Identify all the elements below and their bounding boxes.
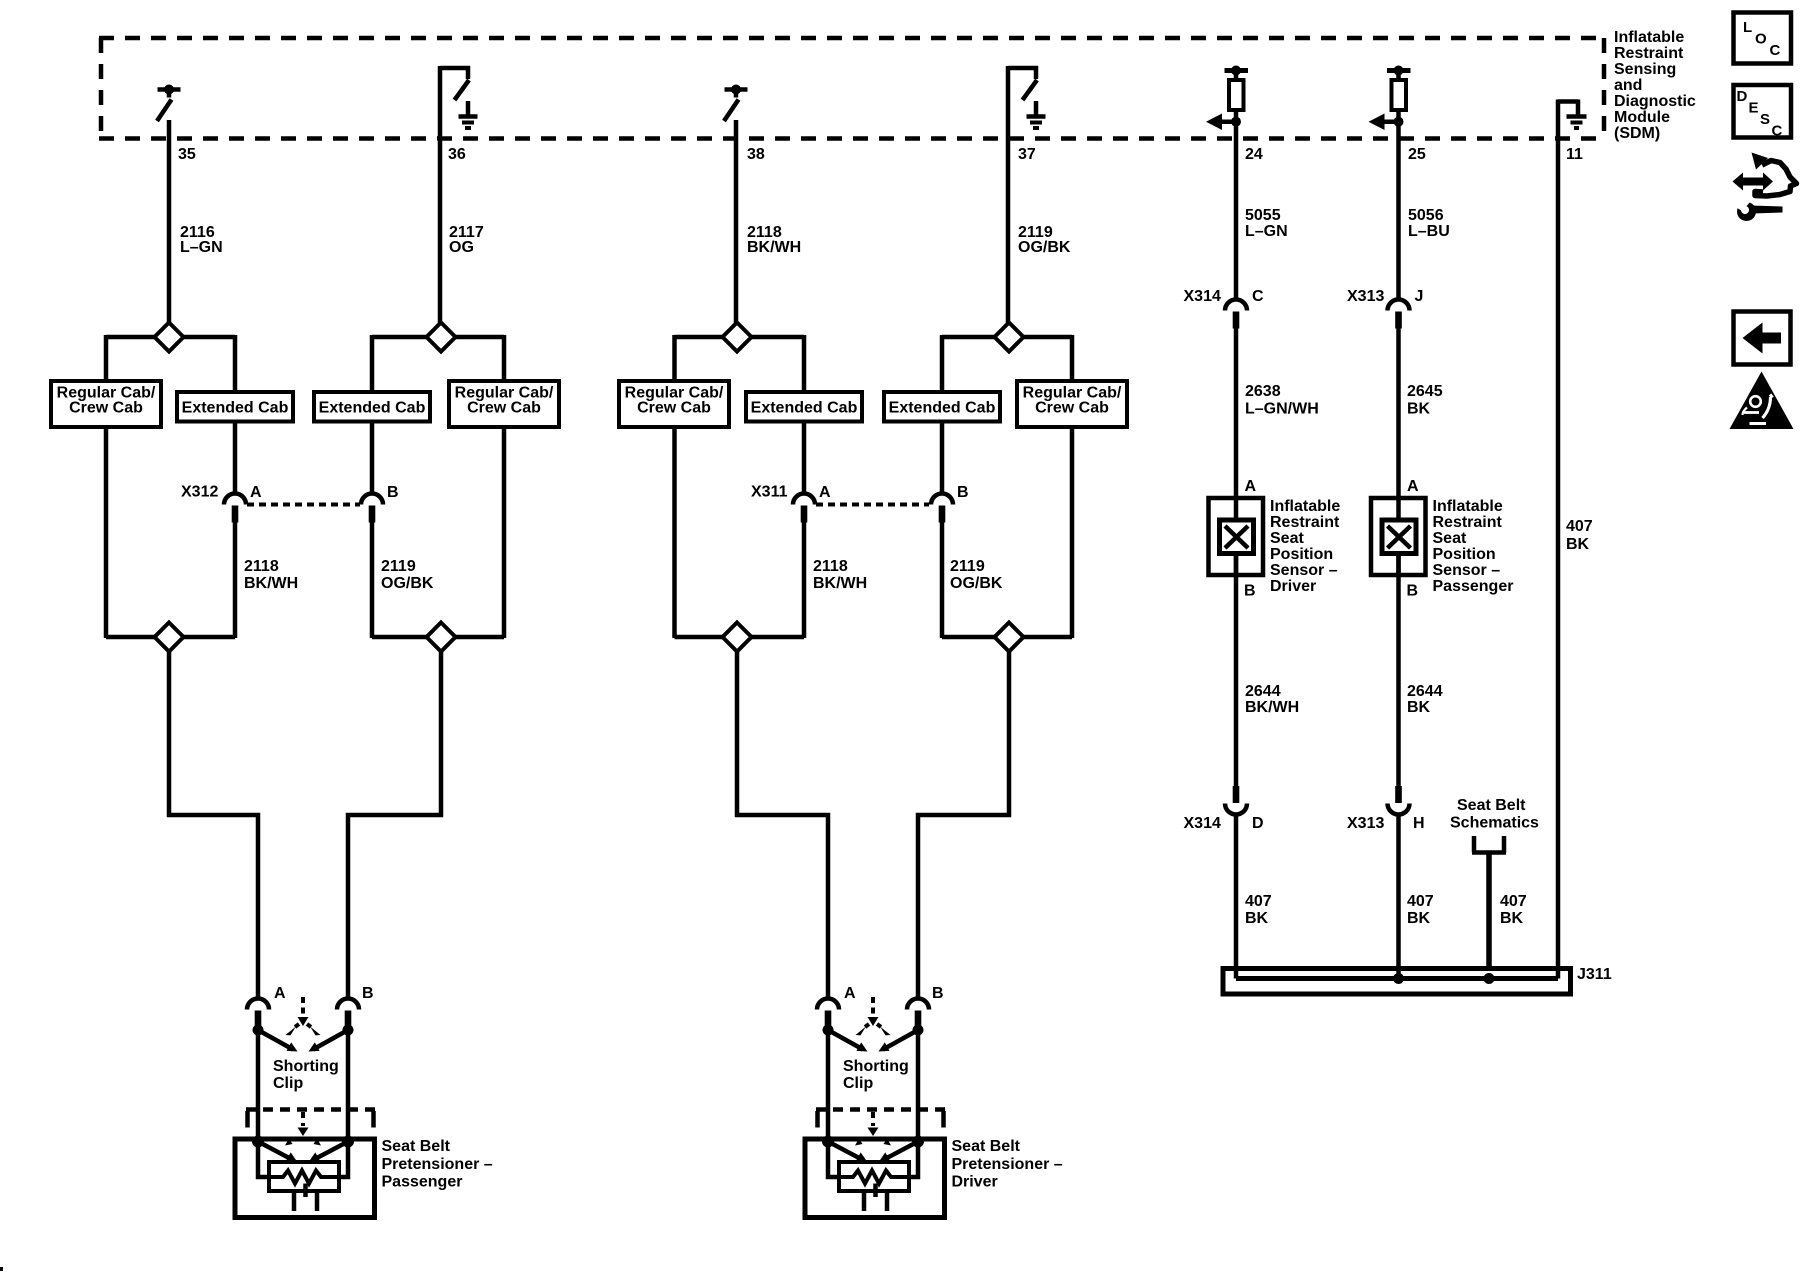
wire circuit2 merge bus — [372, 635, 504, 640]
wire label 5055 L-GN — [1245, 207, 1288, 240]
svg-text:407: 407 — [1245, 893, 1272, 910]
wire label 407 BK middle — [1407, 893, 1434, 927]
icon service double arrow — [1733, 173, 1774, 191]
shorting clip actuation dashed arrow center — [301, 997, 305, 1016]
wire pin 38 to diamond — [734, 120, 739, 324]
svg-text:A: A — [250, 484, 262, 501]
splice diamond circuit4 bottom — [995, 623, 1024, 652]
wire circuit4 right stub to Regular Cab box — [1070, 335, 1075, 382]
label Seat Belt Pretensioner Passenger — [382, 1138, 493, 1191]
svg-text:Seat Belt: Seat Belt — [382, 1138, 451, 1155]
junction dot X313 wire on bus — [1393, 973, 1404, 984]
shorting clip dashed arrow right — [307, 1024, 313, 1029]
connector pin B arc (pretensioner driver) — [907, 999, 929, 1010]
connector X312 pin B terminal — [369, 506, 376, 523]
connector X314 pin D terminal — [1233, 786, 1240, 803]
svg-text:Passenger: Passenger — [382, 1174, 463, 1191]
svg-text:Shorting: Shorting — [273, 1058, 339, 1075]
connector pin A terminal — [255, 1011, 262, 1028]
option box Extended Cab circuit1 — [177, 392, 293, 422]
connector X314 pin C arc — [1225, 300, 1247, 311]
svg-text:Sensor –: Sensor – — [1433, 562, 1501, 579]
wire Regular branch down circuit3 — [672, 427, 677, 638]
wire circuit1 left stub to Regular Cab box — [104, 335, 109, 382]
SDM pin 35 firing-loop driver switch — [157, 90, 181, 122]
splice diamond circuit1 top — [155, 323, 184, 352]
svg-text:Position: Position — [1270, 546, 1333, 563]
wire label 2116 L-GN — [180, 224, 223, 256]
connector X312 pin B arc — [361, 494, 383, 505]
SDM pin 24 sense arrow — [1216, 119, 1236, 124]
svg-text:2118: 2118 — [244, 558, 279, 575]
junction dot A — [253, 1025, 264, 1036]
wire circuit1 right stub to Extended Cab box — [233, 335, 238, 393]
connector pin B arc (pretensioner passenger) — [337, 999, 359, 1010]
wire pin 24 down to X314 C — [1234, 110, 1239, 300]
svg-text:L: L — [1743, 19, 1752, 36]
svg-text:Clip: Clip — [273, 1075, 303, 1092]
wire A to squib — [258, 1142, 271, 1178]
option box Regular Cab/Crew Cab circuit2 — [449, 381, 559, 427]
svg-text:24: 24 — [1245, 146, 1263, 163]
wire label 2119 OG/BK circuit2 — [381, 558, 434, 592]
svg-text:B: B — [932, 985, 944, 1002]
junction dot A inside box — [252, 1136, 264, 1148]
splice diamond circuit4 top — [995, 323, 1024, 352]
connector X311 pin A arc — [793, 494, 815, 505]
splice pack J311 bus bar — [1236, 976, 1558, 981]
svg-text:L–GN/WH: L–GN/WH — [1245, 401, 1319, 418]
component box Seat Belt Pretensioner Driver — [805, 1139, 945, 1218]
dashed connector housing top — [816, 1107, 945, 1112]
svg-text:Extended Cab: Extended Cab — [751, 400, 858, 417]
svg-text:OG/BK: OG/BK — [950, 575, 1003, 592]
wire label 2119 OG/BK — [1018, 224, 1071, 256]
svg-text:Seat: Seat — [1270, 530, 1304, 547]
wire A down to pretensioner — [826, 1030, 831, 1142]
dashed connector housing top — [246, 1107, 375, 1112]
SDM pin 38 firing-loop driver switch — [724, 90, 748, 122]
svg-text:Extended Cab: Extended Cab — [319, 400, 426, 417]
option box Regular Cab/Crew Cab circuit4 — [1017, 381, 1127, 427]
svg-text:2645: 2645 — [1407, 383, 1443, 400]
shorting clip contact blade B — [883, 1030, 918, 1050]
wire A down to pretensioner — [256, 1030, 261, 1142]
shorting clip contact blade A — [258, 1030, 293, 1050]
wire Regular branch down circuit2 — [502, 427, 507, 638]
wire X314 C to seat position sensor driver — [1234, 327, 1239, 522]
svg-text:OG/BK: OG/BK — [1018, 239, 1071, 256]
svg-text:(SDM): (SDM) — [1614, 125, 1660, 142]
svg-text:X314: X314 — [1184, 815, 1221, 832]
svg-text:Driver: Driver — [952, 1174, 998, 1191]
label Seat Belt Pretensioner Driver — [952, 1138, 1063, 1191]
shorting bar blade B inside box — [315, 1142, 348, 1160]
connector X311 pin B arc — [931, 494, 953, 505]
svg-text:Seat: Seat — [1433, 530, 1467, 547]
squib box passenger — [269, 1162, 339, 1191]
svg-text:J311: J311 — [1577, 966, 1612, 983]
SDM pin 25 sense arrow — [1379, 119, 1399, 124]
svg-text:and: and — [1614, 77, 1642, 94]
SDM pin 11 internal ground connection — [1558, 100, 1578, 116]
svg-text:407: 407 — [1407, 893, 1434, 910]
svg-text:Position: Position — [1433, 546, 1496, 563]
svg-text:Inflatable: Inflatable — [1614, 29, 1684, 46]
SDM pin 24 pull-up resistor R1 — [1225, 68, 1249, 73]
wire label 407 BK left — [1245, 893, 1272, 927]
wire X313 J to seat position sensor passenger — [1396, 327, 1401, 522]
wire circuit1 split bus — [106, 335, 235, 340]
junction dot A inside box — [822, 1136, 834, 1148]
svg-text:S: S — [1760, 111, 1770, 128]
dashed connector line X312 A to B — [247, 503, 360, 507]
junction dot A — [823, 1025, 834, 1036]
off-page connector Seat Belt Schematics — [1472, 836, 1506, 853]
shorting bar blade A inside box — [258, 1142, 291, 1160]
svg-text:D: D — [1737, 88, 1748, 105]
junction dot B — [343, 1025, 354, 1036]
svg-text:E: E — [1749, 100, 1759, 117]
wire pin 35 to diamond — [167, 120, 172, 324]
connector X313 pin H terminal — [1395, 786, 1402, 803]
wire label 2638 L-GN/WH — [1245, 383, 1319, 418]
ground G3 inside SDM at pin 11 — [1567, 117, 1587, 129]
wire circuit2 output jog to pretensioner B — [348, 649, 441, 999]
svg-text:X312: X312 — [181, 484, 218, 501]
svg-text:Driver: Driver — [1270, 578, 1316, 595]
connector X312 pin A terminal — [232, 506, 239, 523]
option box Extended Cab circuit4 — [884, 392, 1000, 422]
svg-text:X313: X313 — [1347, 815, 1384, 832]
svg-text:Passenger: Passenger — [1433, 578, 1514, 595]
wire label 407 BK pin 11 — [1566, 518, 1593, 553]
SDM pin 37 switch to ground — [1008, 66, 1038, 100]
wire below X311 B — [940, 521, 945, 638]
svg-text:Seat Belt: Seat Belt — [952, 1138, 1021, 1155]
svg-text:Crew Cab: Crew Cab — [1035, 400, 1109, 417]
svg-text:Extended Cab: Extended Cab — [182, 400, 289, 417]
shorting clip contact blade B — [313, 1030, 348, 1050]
wire circuit3 merge bus — [675, 635, 805, 640]
svg-text:BK: BK — [1245, 910, 1269, 927]
svg-text:Diagnostic: Diagnostic — [1614, 93, 1696, 110]
svg-text:BK: BK — [1566, 536, 1590, 553]
svg-text:407: 407 — [1566, 518, 1593, 535]
wire sensor driver B down to X314 D — [1234, 553, 1239, 787]
dashed connector housing left — [245, 1111, 250, 1128]
connector X311 pin A terminal — [801, 506, 808, 523]
svg-text:BK: BK — [1500, 910, 1524, 927]
connector pin A terminal — [825, 1011, 832, 1028]
page corner mark bottom left — [0, 1267, 3, 1271]
wire Regular branch down circuit1 — [104, 427, 109, 638]
svg-text:Clip: Clip — [843, 1075, 873, 1092]
svg-text:Crew Cab: Crew Cab — [637, 400, 711, 417]
component box Inflatable Restraint Seat Position Sensor Driver — [1209, 498, 1264, 575]
svg-text:L–BU: L–BU — [1408, 223, 1450, 240]
dashed connector housing left — [815, 1111, 820, 1128]
svg-text:BK/WH: BK/WH — [244, 575, 298, 592]
svg-text:11: 11 — [1566, 146, 1583, 163]
splice diamond circuit3 bottom — [723, 623, 752, 652]
svg-text:25: 25 — [1408, 146, 1426, 163]
sensor element box passenger — [1382, 520, 1416, 554]
wire B to squib — [337, 1142, 348, 1178]
SDM pin 25 pull-up resistor R2 — [1387, 68, 1411, 73]
label Inflatable Restraint Seat Position Sensor Driver — [1270, 498, 1340, 595]
svg-text:BK/WH: BK/WH — [813, 575, 867, 592]
dashed arrow into pretensioner — [301, 1112, 305, 1126]
svg-text:Restraint: Restraint — [1433, 514, 1503, 531]
icon airbag warning triangle — [1730, 372, 1794, 430]
option box Extended Cab circuit2 — [314, 392, 430, 422]
sensor element box driver — [1220, 520, 1254, 554]
connector pin A arc (pretensioner driver) — [817, 999, 839, 1010]
dashed connector housing right — [941, 1111, 946, 1128]
svg-text:A: A — [819, 484, 831, 501]
dashed connector line X311 A to B — [816, 503, 929, 507]
squib box driver — [839, 1162, 909, 1191]
wire X314 D to J311 — [1234, 813, 1239, 981]
splice pack J311 box — [1223, 969, 1571, 995]
svg-text:BK: BK — [1407, 699, 1431, 716]
svg-text:Sensor –: Sensor – — [1270, 562, 1338, 579]
wire label 2118 BK/WH circuit3 — [813, 558, 867, 592]
shorting bar blade B inside box — [885, 1142, 918, 1160]
wire A to squib — [828, 1142, 841, 1178]
svg-text:X313: X313 — [1347, 288, 1384, 305]
dashed connector housing right — [371, 1111, 376, 1128]
wire label 2644 BK — [1407, 683, 1443, 716]
junction dot B — [913, 1025, 924, 1036]
connector X313 pin H arc — [1388, 804, 1410, 815]
wire B to squib — [907, 1142, 918, 1178]
wire Extended branch down to X312 A — [233, 421, 238, 495]
svg-text:C: C — [1770, 42, 1781, 59]
connector X314 pin D arc — [1225, 804, 1247, 815]
sensor X element passenger — [1388, 526, 1411, 548]
splice diamond circuit2 top — [427, 323, 456, 352]
wire label 2644 BK/WH — [1245, 683, 1299, 716]
wire through sensor driver box — [1234, 496, 1239, 522]
icon service curved outline arrow — [1755, 161, 1797, 197]
svg-text:36: 36 — [448, 146, 466, 163]
label Shorting Clip — [273, 1058, 339, 1092]
wire B down to pretensioner — [916, 1030, 921, 1142]
wire below X311 A — [802, 521, 807, 638]
shorting bar blade A inside box — [828, 1142, 861, 1160]
splice diamond circuit3 top — [723, 323, 752, 352]
svg-text:Crew Cab: Crew Cab — [467, 400, 541, 417]
svg-text:2118: 2118 — [813, 558, 848, 575]
wire pin 37 to diamond — [1006, 66, 1011, 324]
svg-text:D: D — [1252, 815, 1264, 832]
connector pin B terminal — [345, 1011, 352, 1028]
svg-text:Module: Module — [1614, 109, 1670, 126]
wire circuit2 right stub to Regular Cab box — [502, 335, 507, 382]
wire sensor passenger B down to X313 H — [1396, 553, 1401, 787]
wire label 2645 BK — [1407, 383, 1443, 418]
wire label 5056 L-BU — [1408, 207, 1450, 240]
wire pin 25 down to X313 J — [1396, 110, 1401, 300]
svg-text:Restraint: Restraint — [1270, 514, 1340, 531]
wire X313 H to J311 — [1396, 813, 1401, 981]
shorting clip dashed arrow right — [877, 1024, 883, 1029]
svg-text:2119: 2119 — [950, 558, 985, 575]
wire circuit3 right stub to Extended Cab box — [802, 335, 807, 393]
connector X312 pin A arc — [224, 494, 246, 505]
wire circuit4 left stub to Extended Cab box — [940, 335, 945, 393]
svg-text:Restraint: Restraint — [1614, 45, 1684, 62]
wire below X312 B — [370, 521, 375, 638]
ground G2 inside SDM at pin 37 — [1027, 101, 1046, 128]
gas generator legs passenger — [292, 1191, 297, 1211]
module U1 Inflatable Restraint Sensing and Diagnostic Module (SDM) dashed box — [99, 38, 1606, 139]
connector X311 pin B terminal — [939, 506, 946, 523]
squib resistor element passenger — [271, 1171, 337, 1184]
svg-text:2644: 2644 — [1245, 683, 1281, 700]
svg-text:L–GN: L–GN — [180, 239, 223, 256]
svg-text:Shorting: Shorting — [843, 1058, 909, 1075]
wire circuit3 output jog to pretensioner A — [737, 649, 828, 999]
svg-text:Schematics: Schematics — [1450, 815, 1539, 832]
svg-text:2644: 2644 — [1407, 683, 1443, 700]
svg-text:OG/BK: OG/BK — [381, 575, 434, 592]
svg-text:B: B — [1244, 583, 1256, 600]
svg-text:O: O — [1755, 31, 1767, 48]
icon service arrowhead — [1752, 153, 1769, 170]
svg-text:Pretensioner –: Pretensioner – — [952, 1156, 1063, 1173]
svg-text:B: B — [1407, 583, 1419, 600]
splice diamond circuit2 bottom — [427, 623, 456, 652]
svg-text:X314: X314 — [1184, 288, 1221, 305]
svg-text:A: A — [844, 985, 856, 1002]
wire circuit4 output jog to pretensioner B — [918, 649, 1009, 999]
svg-text:L–GN: L–GN — [1245, 223, 1288, 240]
component box Seat Belt Pretensioner Passenger — [235, 1139, 375, 1218]
svg-text:Extended Cab: Extended Cab — [889, 400, 996, 417]
svg-text:X311: X311 — [751, 484, 788, 501]
wire label 2118 BK/WH — [747, 224, 801, 256]
svg-text:J: J — [1415, 288, 1424, 305]
wire through sensor passenger box — [1396, 496, 1401, 522]
component box Inflatable Restraint Seat Position Sensor Passenger — [1371, 498, 1426, 575]
junction dot B inside box — [912, 1136, 924, 1148]
wire Regular branch down circuit4 — [1070, 427, 1075, 638]
svg-text:35: 35 — [178, 146, 196, 163]
svg-text:BK/WH: BK/WH — [1245, 699, 1299, 716]
label Inflatable Restraint Seat Position Sensor Passenger — [1433, 498, 1514, 595]
svg-text:Crew Cab: Crew Cab — [69, 400, 143, 417]
wire circuit4 split bus — [942, 335, 1072, 340]
wire Extended branch down to X312 B — [370, 421, 375, 495]
svg-text:BK: BK — [1407, 910, 1431, 927]
label Shorting Clip — [843, 1058, 909, 1092]
svg-text:Inflatable: Inflatable — [1270, 498, 1340, 515]
svg-text:2119: 2119 — [381, 558, 416, 575]
wire label 407 BK right — [1500, 893, 1527, 927]
wire circuit3 split bus — [675, 335, 805, 340]
connector X313 pin J terminal — [1395, 312, 1402, 329]
wire below X312 A — [233, 521, 238, 638]
svg-text:Seat Belt: Seat Belt — [1457, 797, 1526, 814]
shorting clip dashed arrow left — [863, 1024, 869, 1029]
svg-text:B: B — [387, 484, 399, 501]
svg-text:407: 407 — [1500, 893, 1527, 910]
wire pin 11 down to J311 — [1556, 100, 1561, 979]
shorting clip dashed arrow left — [293, 1024, 299, 1029]
svg-text:5056: 5056 — [1408, 207, 1444, 224]
dashed arrow into pretensioner — [871, 1112, 875, 1126]
wire Seat Belt Schematics to J311 — [1486, 853, 1492, 982]
connector X313 pin J arc — [1388, 300, 1410, 311]
option box Regular Cab/Crew Cab circuit3 — [619, 381, 729, 427]
wire circuit2 left stub to Extended Cab box — [370, 335, 375, 393]
svg-text:B: B — [957, 484, 969, 501]
wire label 2118 BK/WH circuit1 — [244, 558, 298, 592]
svg-text:A: A — [274, 985, 286, 1002]
SDM pin 36 switch to ground — [440, 66, 470, 100]
connector X314 pin C terminal — [1233, 312, 1240, 329]
svg-text:5055: 5055 — [1245, 207, 1281, 224]
wire Extended branch down to X311 A — [802, 421, 807, 495]
wire circuit3 left stub to Regular Cab box — [672, 335, 677, 382]
connector pin A arc (pretensioner passenger) — [247, 999, 269, 1010]
wire pin 11 into bus right end — [1556, 968, 1561, 979]
wire circuit1 output jog to pretensioner A — [169, 649, 258, 999]
wire B down to pretensioner — [346, 1030, 351, 1142]
wire label 2117 OG — [449, 224, 484, 256]
wire pin 36 to diamond — [438, 66, 443, 324]
icon service wrench — [1751, 206, 1783, 214]
shorting clip actuation dashed arrow center — [871, 997, 875, 1016]
icon DESC box — [1734, 85, 1792, 138]
wire label 2119 OG/BK circuit4 — [950, 558, 1003, 592]
svg-text:Inflatable: Inflatable — [1433, 498, 1503, 515]
sensor X element driver — [1225, 526, 1248, 548]
svg-text:38: 38 — [747, 146, 765, 163]
svg-text:BK/WH: BK/WH — [747, 239, 801, 256]
wire circuit2 split bus — [372, 335, 504, 340]
svg-text:C: C — [1252, 288, 1264, 305]
wire pin24 column into bus — [1234, 968, 1239, 979]
wire circuit4 merge bus — [942, 635, 1072, 640]
connector pin B terminal — [915, 1011, 922, 1028]
shorting clip contact blade A — [828, 1030, 863, 1050]
svg-text:2638: 2638 — [1245, 383, 1281, 400]
label Seat Belt Schematics — [1450, 797, 1539, 832]
svg-text:Pretensioner –: Pretensioner – — [382, 1156, 493, 1173]
svg-text:A: A — [1407, 478, 1419, 495]
wire pin25 column into bus — [1396, 968, 1401, 979]
icon back arrow box — [1734, 312, 1791, 365]
option box Extended Cab circuit3 — [746, 392, 862, 422]
ground G1 inside SDM at pin 36 — [459, 101, 478, 128]
wire circuit1 merge bus — [106, 635, 235, 640]
module U1 label — [1614, 29, 1696, 142]
svg-text:A: A — [1245, 478, 1257, 495]
splice diamond circuit1 bottom — [155, 623, 184, 652]
wire Extended branch down to X311 B — [940, 421, 945, 495]
junction dot B inside box — [342, 1136, 354, 1148]
svg-text:C: C — [1772, 123, 1783, 140]
icon LOC box — [1734, 13, 1792, 64]
gas generator legs driver — [862, 1191, 867, 1211]
svg-text:BK: BK — [1407, 401, 1431, 418]
svg-text:37: 37 — [1018, 146, 1036, 163]
svg-text:B: B — [362, 985, 374, 1002]
